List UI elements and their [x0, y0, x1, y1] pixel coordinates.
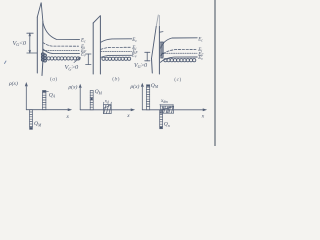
- xd tick arrows plot2: [103, 102, 111, 104]
- svg-text:): ): [118, 76, 120, 83]
- stray ink mark left margin: [5, 61, 7, 64]
- label (b): [112, 76, 119, 83]
- label (a): [50, 75, 57, 82]
- conduction band Ec curve (b): [101, 39, 132, 43]
- VG>0 dimension bracket (b): [86, 54, 91, 65]
- metal electrode line (a): [36, 17, 38, 73]
- oxide barrier spike (c): [152, 27, 157, 59]
- svg-text:): ): [179, 76, 181, 83]
- VG>>0 dimension bracket (c): [145, 52, 150, 61]
- valence band Ev curve (a): [43, 49, 80, 54]
- acceptor row below Ev (c): [164, 59, 196, 62]
- svg-text:): ): [55, 75, 57, 82]
- intrinsic level Ei dashed (c): [160, 49, 196, 56]
- valence band Ev curve (c): [160, 57, 197, 62]
- depletion charge box xd plot2: [103, 105, 111, 114]
- metal charge bar plot3: [147, 85, 150, 110]
- metal Fermi tick (c): [160, 31, 163, 34]
- leader to QA label plot1: [46, 91, 48, 93]
- metal charge bar plot2: [90, 91, 93, 110]
- svg-text:Ec: Ec: [197, 38, 203, 43]
- rho axis plot2: [79, 85, 81, 110]
- svg-text:ρ(x): ρ(x): [68, 83, 78, 90]
- x axis plot2: [80, 109, 134, 111]
- accumulation charge bar plot1: [43, 91, 46, 110]
- VG<0 dimension bracket (a): [27, 33, 37, 53]
- inversion charge bar Qn plot3: [160, 110, 163, 129]
- svg-text:ρ(x): ρ(x): [130, 83, 140, 90]
- svg-text:x: x: [126, 113, 130, 119]
- xdm dimension line plot3: [160, 105, 174, 106]
- oxide barrier spike (a): [37, 3, 43, 22]
- depletion charge box xdm plot3: [160, 106, 173, 113]
- oxide barrier spike (b): [93, 16, 100, 23]
- x axis plot1: [26, 109, 71, 111]
- valence band Ev curve (b): [101, 55, 132, 57]
- svg-text:x: x: [66, 114, 70, 120]
- page rule border right: [214, 0, 216, 146]
- svg-text:VG>0: VG>0: [65, 64, 80, 71]
- hole row along Ev (a): [47, 57, 80, 60]
- inversion electron cluster at interface (c): [161, 42, 164, 58]
- ionized acceptor row below Ev (b): [102, 57, 131, 60]
- svg-text:Ev: Ev: [131, 54, 137, 59]
- rho axis plot1: [25, 83, 27, 110]
- oxide-semiconductor interface line (c): [158, 16, 160, 27]
- rho axis plot3: [141, 84, 143, 110]
- Fermi level EF dotted (c): [162, 52, 197, 54]
- oxide-semiconductor interface line (b): [99, 16, 101, 74]
- svg-text:Ec: Ec: [80, 38, 86, 43]
- metal electrode line (c): [151, 59, 154, 74]
- leader arrow from VG>0 label to bracket (b): [74, 58, 80, 63]
- svg-text:x: x: [201, 114, 205, 120]
- x axis plot3: [142, 109, 206, 111]
- svg-text:VG>0: VG>0: [134, 63, 147, 69]
- svg-text:Ev: Ev: [197, 56, 203, 61]
- conduction band Ec curve (c): [160, 38, 197, 49]
- intrinsic level Ei dashed (a): [43, 42, 79, 46]
- svg-text:Ev: Ev: [80, 53, 86, 58]
- label (c): [174, 76, 181, 83]
- metal electrode line (b): [92, 23, 94, 74]
- svg-text:ρ(x): ρ(x): [8, 80, 18, 87]
- conduction band Ec curve (a): [43, 23, 80, 40]
- hole accumulation cluster at interface (a): [41, 53, 47, 63]
- svg-text:Ec: Ec: [131, 38, 137, 43]
- intrinsic level Ei dashed (b): [101, 47, 131, 49]
- Fermi level EF dotted (b): [101, 51, 132, 53]
- oxide-semiconductor interface line (a): [41, 22, 44, 76]
- metal charge bar plot1: [30, 110, 33, 130]
- page background: [0, 0, 220, 146]
- Fermi level EF dotted (a): [43, 50, 80, 52]
- svg-text:VG<0: VG<0: [13, 40, 27, 47]
